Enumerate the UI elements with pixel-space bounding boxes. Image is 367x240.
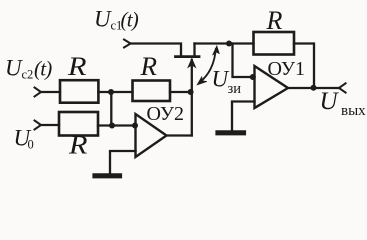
svg-text:0: 0 bbox=[28, 138, 34, 152]
wire Uzi annotation arrow bbox=[200, 49, 216, 83]
svg-text:ОУ2: ОУ2 bbox=[147, 103, 184, 125]
transistor VT1 gate arrowhead bbox=[188, 59, 195, 67]
node Uc1 input terminal bbox=[124, 40, 131, 48]
node OU2 inverting input dot bbox=[132, 123, 138, 129]
wire U0 to R3 bbox=[41, 124, 59, 126]
wire source to node A bbox=[195, 42, 254, 44]
wire OU2 output to gate bbox=[167, 134, 192, 136]
node OU1 inverting input dot bbox=[250, 74, 256, 80]
wire node A down to OU1 inverting input bbox=[233, 44, 255, 78]
transistor VT1 gate lead with arrow bbox=[191, 60, 193, 136]
node output junction dot bbox=[311, 85, 317, 91]
resistor R2 (OU2 feedback) bbox=[133, 81, 171, 102]
svg-text:R: R bbox=[67, 52, 87, 81]
svg-text:U: U bbox=[320, 88, 340, 115]
svg-text:R: R bbox=[68, 131, 88, 160]
svg-text:(t): (t) bbox=[121, 8, 139, 32]
svg-text:R: R bbox=[139, 52, 157, 81]
node A junction dot bbox=[226, 41, 232, 47]
node summing top junction dot bbox=[108, 89, 114, 95]
op-amp OU1 bbox=[255, 66, 289, 108]
resistor R1 bbox=[60, 80, 98, 103]
ground under OU2 bbox=[95, 173, 120, 178]
svg-text:зи: зи bbox=[228, 81, 242, 97]
transistor VT1 source stub bbox=[193, 44, 195, 56]
node U0 input terminal bbox=[35, 121, 42, 130]
node summing bottom junction dot bbox=[109, 123, 115, 129]
op-amp OU2 bbox=[136, 114, 167, 157]
wire R2 to gate node bbox=[170, 91, 192, 93]
node output terminal fork bbox=[339, 83, 346, 92]
node Uc2 input terminal bbox=[35, 88, 42, 97]
svg-text:вых: вых bbox=[341, 103, 366, 119]
resistor R4 (OU1 feedback) bbox=[254, 32, 295, 55]
svg-text:U: U bbox=[94, 7, 112, 32]
wire Uc1 to transistor drain bbox=[131, 44, 182, 56]
svg-text:ОУ1: ОУ1 bbox=[268, 58, 305, 80]
wire R1 to summing node bbox=[98, 91, 132, 93]
svg-text:c2: c2 bbox=[22, 68, 34, 82]
wire OU1 noninverting input bbox=[232, 102, 255, 131]
wire summing vertical bbox=[110, 92, 112, 126]
svg-text:(t): (t) bbox=[34, 57, 52, 81]
resistor R3 bbox=[59, 112, 98, 136]
svg-text:U: U bbox=[5, 56, 23, 81]
ground under OU1 bbox=[218, 130, 244, 135]
wire R4 to OU1 output bbox=[294, 44, 314, 88]
wire OU2 noninverting input bbox=[110, 151, 136, 174]
wire R3 to OU2 inverting input bbox=[98, 124, 136, 126]
svg-text:R: R bbox=[266, 6, 283, 35]
wire Uc2 to R1 bbox=[41, 91, 60, 93]
node gate junction dot bbox=[188, 89, 194, 95]
wire OU1 output bbox=[288, 87, 339, 89]
transistor VT1 channel bar bbox=[176, 55, 200, 58]
